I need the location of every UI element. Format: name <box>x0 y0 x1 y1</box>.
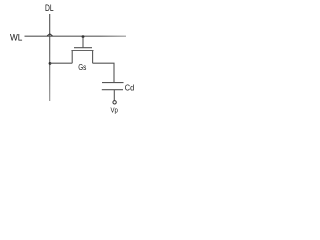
wire: drain of Gs to capacitor Cd <box>93 63 114 82</box>
wire: word line WL (horizontal) <box>25 35 127 37</box>
transistor Gs channel bar <box>71 50 93 52</box>
svg-text:DL: DL <box>45 3 54 13</box>
capacitor Cd top plate <box>102 82 124 84</box>
arrowhead at DL/WL crossing <box>47 34 52 36</box>
terminal Vp (open circle) <box>113 101 116 104</box>
wire: data line DL (vertical) <box>49 14 51 101</box>
junction dot: WL to gate stub of transistor Gs <box>82 35 85 38</box>
svg-text:Vp: Vp <box>111 105 118 114</box>
wire: gate stub <box>82 37 84 48</box>
wire: Cd to Vp terminal <box>113 90 115 101</box>
capacitor Cd bottom plate <box>102 89 123 91</box>
transistor Gs drain leg <box>92 51 94 64</box>
transistor Gs gate bar <box>74 47 92 49</box>
svg-text:Gs: Gs <box>78 62 86 72</box>
wire: DL to source of Gs <box>50 62 72 64</box>
transistor Gs source leg <box>71 51 73 64</box>
svg-text:WL: WL <box>10 32 22 42</box>
junction dot: DL to source wire <box>49 62 52 65</box>
svg-text:Cd: Cd <box>125 83 135 93</box>
